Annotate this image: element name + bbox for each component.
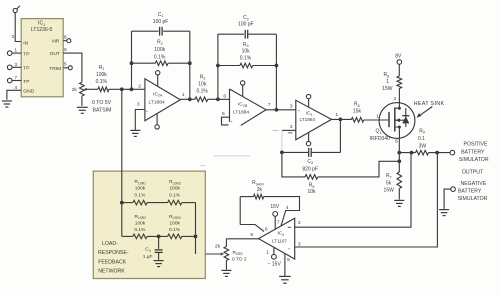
svg-text:3W: 3W (419, 144, 427, 150)
node source-rail (397, 151, 401, 155)
power pin circle top IC2B (241, 81, 245, 97)
svg-text:15W: 15W (384, 187, 395, 193)
node drain-diode (398, 107, 401, 110)
label load-response-feedback network (98, 241, 129, 275)
power pin circle bottom IC3 (306, 133, 310, 146)
svg-text:BATTERY: BATTERY (461, 149, 485, 155)
svg-text:820 pF: 820 pF (302, 166, 318, 172)
svg-text:SIMULATOR: SIMULATOR (459, 157, 489, 163)
svg-text:2: 2 (12, 34, 15, 40)
wire load to wiper (195, 236, 197, 254)
capacitor C2 100 pF (238, 15, 254, 38)
svg-text:3: 3 (290, 104, 293, 110)
pin 5 stub IC2B (222, 111, 234, 125)
wire load network main vertical (121, 89, 123, 202)
svg-text:IN: IN (23, 40, 28, 46)
resistor R7 5k 15W (384, 161, 402, 199)
resistor R5 10k (282, 152, 318, 195)
svg-text:− 15V: − 15V (268, 262, 282, 268)
wire C2 loop left rail (217, 34, 219, 99)
svg-text:BATTERY: BATTERY (458, 188, 482, 194)
pin 3 TP (7, 62, 29, 72)
svg-text:0.1%: 0.1% (154, 54, 166, 60)
in-amp IC4 LT1167 (259, 218, 295, 259)
svg-text:7: 7 (277, 219, 280, 225)
resistor R2 100k 0.1% (132, 40, 190, 66)
svg-text:5: 5 (287, 257, 290, 263)
svg-text:OUT: OUT (50, 51, 60, 57)
pin 1 TP (7, 48, 29, 58)
wire IC3 output (332, 112, 352, 119)
svg-text:SIMULATOR: SIMULATOR (458, 196, 488, 202)
svg-text:8V: 8V (395, 53, 402, 59)
pin 7 15V supply (270, 204, 280, 229)
node C4 tap (157, 235, 161, 239)
pin 6 lead (240, 225, 268, 233)
pin 2 label IC2A (138, 84, 141, 90)
svg-text:1: 1 (14, 48, 17, 54)
wire IC2A output (180, 92, 195, 100)
pin 8 wire to pot (226, 232, 258, 239)
svg-text:FEEDBACK: FEEDBACK (98, 259, 127, 265)
wire pot wiper to R1 (87, 88, 98, 90)
svg-text:RESPONSE-: RESPONSE- (98, 250, 129, 256)
pin 6 OUT wire (50, 47, 82, 82)
node load-network tap (120, 87, 124, 91)
Q1 drain lead up (394, 90, 400, 108)
svg-text:0.1%: 0.1% (134, 193, 146, 199)
Q1 body diode (402, 108, 409, 127)
power pin circle top IC2A (156, 71, 160, 87)
pin 5 TRIM (49, 62, 72, 72)
resistor R6 15k (351, 102, 364, 123)
pin 5 lead to ground (285, 254, 290, 277)
wire sense+ to IC4 pin 2 (295, 153, 411, 228)
Q1 gate bar (388, 112, 390, 127)
wire C3 up to IC3 output (339, 119, 341, 152)
resistor RLSR1 100k 0.1% (122, 179, 168, 205)
svg-text:0 TO 5V: 0 TO 5V (92, 100, 112, 106)
resistor RLSR2 100k 0.1% (122, 214, 168, 239)
Q1 source stub (395, 127, 400, 138)
ground (C4) (154, 261, 164, 267)
capacitor C3 820 pF (282, 148, 341, 173)
node sense left (410, 151, 414, 155)
node load rail right (194, 235, 198, 239)
svg-text:1: 1 (182, 92, 185, 98)
wire sense- to IC4 pin 3 (295, 153, 438, 247)
svg-text:100 pF: 100 pF (238, 22, 254, 28)
node source-feedback (397, 159, 401, 163)
svg-text:BATSIM: BATSIM (93, 107, 112, 113)
node R4 left (216, 64, 220, 68)
svg-text:3: 3 (137, 102, 140, 108)
transistor Q1 IRFD040 body circle (379, 103, 415, 139)
svg-text:10k: 10k (307, 189, 316, 195)
wire C1 loop right rail (189, 31, 191, 99)
wire RGAIN right to pin 4 (264, 197, 300, 226)
svg-text:NEGATIVE: NEGATIVE (460, 181, 486, 187)
pin 2 wire IC3 (282, 124, 296, 133)
wire load right drop (195, 203, 197, 237)
svg-text:1: 1 (266, 249, 269, 255)
svg-text:100k: 100k (169, 220, 180, 226)
svg-text:POSITIVE: POSITIVE (464, 141, 488, 147)
svg-text:10k: 10k (198, 82, 207, 88)
svg-text:TRIM: TRIM (49, 66, 61, 72)
negative battery simulator terminal (451, 187, 456, 192)
resistor RGAIN 2k (240, 180, 264, 199)
potentiometer RCBS 0 TO 2k (215, 239, 247, 263)
pin 8 NR (52, 35, 71, 45)
wire R1 to IC2A pin 2 (109, 88, 145, 90)
svg-text:100 pF: 100 pF (153, 19, 169, 25)
svg-text:HEAT SINK: HEAT SINK (414, 101, 445, 107)
wire C2 loop top rail (218, 33, 277, 35)
svg-text:0.1%: 0.1% (134, 227, 146, 233)
wire IC2B output to IC3 pin 3 (266, 102, 296, 110)
pin 1 -15V supply (266, 247, 281, 267)
faint wire remnant 2 (200, 164, 206, 166)
positive battery simulator terminal (450, 150, 455, 155)
svg-text:100k: 100k (154, 47, 165, 53)
wire load left drop (121, 203, 123, 237)
svg-text:6: 6 (64, 47, 67, 53)
ground (IC2A pin3) (130, 130, 140, 136)
faint stub left of IC3 pin2 (273, 129, 279, 131)
ground (pot) (77, 107, 88, 113)
svg-text:100k: 100k (169, 186, 180, 192)
svg-text:0 TO 2: 0 TO 2 (232, 257, 247, 263)
Q1 body arrow stub (395, 118, 406, 122)
power pin circle bottom IC2A (155, 114, 159, 129)
svg-text:LT1167: LT1167 (272, 239, 287, 244)
label S source (395, 139, 399, 145)
pin 4 GND wire (7, 85, 35, 100)
label IRFD040 (370, 136, 390, 142)
label 0 TO 5V BATSIM (92, 100, 112, 113)
load-response-feedback network box (93, 171, 205, 278)
svg-text:2: 2 (394, 96, 397, 102)
svg-text:1: 1 (335, 112, 338, 118)
svg-text:5: 5 (64, 62, 67, 68)
wire 8V to R8 (398, 64, 400, 76)
svg-text:TP: TP (23, 51, 29, 57)
wire R6 to gate pin 1 (364, 113, 389, 120)
node C1/R2 rail tap (130, 87, 134, 91)
input terminal (top left) (13, 6, 20, 13)
svg-text:7: 7 (14, 75, 17, 81)
svg-text:6: 6 (223, 93, 226, 99)
node IC2A output feedback (188, 97, 192, 101)
svg-text:2: 2 (138, 84, 141, 90)
svg-text:NETWORK: NETWORK (98, 269, 125, 275)
svg-text:0.1: 0.1 (418, 136, 425, 142)
pin 3 label IC3 (290, 104, 301, 113)
pin 2 label IC4 (288, 220, 301, 228)
node R2 left (130, 61, 134, 65)
pin 4 label (286, 205, 289, 211)
node C2/R4 rail tap (216, 97, 220, 101)
ground (IC4 pin5) (279, 276, 291, 283)
svg-text:5: 5 (222, 111, 225, 117)
svg-text:0.1%: 0.1% (169, 193, 181, 199)
svg-text:100k: 100k (135, 186, 146, 192)
node load rail top (120, 201, 124, 205)
wire IC3 pin2 down to feedback node (281, 130, 283, 152)
Q1 drain stub (395, 107, 400, 109)
svg-text:4: 4 (14, 85, 17, 91)
wire C1 loop left rail (131, 31, 133, 89)
svg-text:1: 1 (386, 79, 389, 85)
node C3/R5 feedback (280, 151, 284, 155)
label Q1 (376, 129, 382, 135)
resistor R8 1 15W (382, 72, 401, 92)
op-amp IC2B LT1884 (230, 89, 267, 131)
svg-text:100k: 100k (135, 220, 146, 226)
Q1 channel bar (394, 108, 396, 132)
node IC2B output feedback (275, 108, 279, 112)
label negative output (458, 181, 488, 202)
resistor R9 0.1 3W (416, 128, 429, 155)
svg-text:LT1884: LT1884 (300, 117, 316, 122)
wire pot to ground (81, 96, 83, 106)
ground (IC1 GND) (2, 101, 12, 107)
wire output rail (399, 152, 450, 154)
supply terminal 8V (395, 53, 402, 64)
svg-text:15V: 15V (270, 204, 280, 210)
IC IC1 LT1236-5 body (21, 19, 63, 97)
wire C1 loop top rail (132, 30, 190, 32)
pin 2 IN label (12, 34, 29, 46)
svg-text:LOAD-: LOAD- (102, 241, 118, 247)
wire input to IN pin (15, 13, 21, 42)
resistor RLSR4 100k 0.1% (168, 214, 196, 239)
capacitor C1 100 pF (153, 12, 169, 36)
svg-text:2k: 2k (215, 244, 221, 250)
svg-text:15W: 15W (382, 86, 393, 92)
wire R3 to IC2B pin 6 (208, 93, 230, 99)
svg-text:15k: 15k (353, 109, 362, 115)
svg-text:LT1884: LT1884 (233, 109, 250, 115)
wire R5 to MOSFET source node (318, 161, 400, 177)
svg-text:5k: 5k (386, 180, 392, 186)
svg-text:TP: TP (23, 66, 29, 72)
ground (negative output) (439, 210, 449, 216)
wiper wire from load network (196, 253, 225, 256)
svg-text:3: 3 (14, 62, 17, 68)
op-amp IC3 LT1884 (296, 100, 332, 140)
svg-text:6: 6 (265, 226, 268, 232)
svg-text:1 μF: 1 μF (143, 254, 153, 260)
resistor RLSR3 100k 0.1% (168, 179, 196, 205)
svg-text:LT1884: LT1884 (148, 100, 165, 106)
wire source down (398, 138, 400, 161)
pin 3 wire IC2A to ground (135, 102, 148, 131)
power pin circle top IC3 (306, 94, 310, 107)
svg-text:NR: NR (52, 39, 60, 45)
label positive output (459, 141, 489, 163)
ground (RCBS) (221, 270, 231, 276)
svg-text:2k: 2k (257, 187, 263, 193)
svg-text:2: 2 (298, 220, 301, 226)
label output (462, 170, 484, 176)
svg-text:LT1236-5: LT1236-5 (31, 27, 53, 33)
svg-text:3: 3 (298, 241, 301, 247)
node sense right (435, 151, 439, 155)
svg-text:8: 8 (250, 232, 253, 238)
node R4 right (275, 64, 279, 68)
svg-text:OUTPUT: OUTPUT (462, 170, 484, 176)
heat-sink label and arrow (414, 101, 445, 118)
pin 3 label IC4 (288, 241, 301, 251)
potentiometer 2k (BATSIM adjust) (72, 82, 87, 96)
svg-text:10k: 10k (242, 49, 251, 55)
node R2 right (188, 61, 192, 65)
resistor R1 100k 0.1% (96, 65, 109, 92)
capacitor C4 1uF (143, 236, 163, 259)
svg-text:GND: GND (23, 89, 34, 95)
svg-text:TP: TP (23, 79, 29, 85)
wire R8 to drain (398, 89, 400, 91)
svg-text:8: 8 (64, 35, 67, 41)
wire RGAIN left to pin 6 (239, 197, 241, 225)
svg-text:0.1%: 0.1% (169, 227, 181, 233)
svg-text:IRFD040: IRFD040 (370, 136, 390, 142)
svg-text:100k: 100k (96, 72, 107, 78)
svg-text:0.1%: 0.1% (96, 79, 108, 85)
svg-text:0.1%: 0.1% (196, 89, 208, 95)
ground (R7) (394, 200, 404, 206)
wire negative terminal to ground (444, 189, 451, 209)
svg-text:2k: 2k (72, 87, 78, 93)
pin 7 TP (7, 75, 29, 85)
node source-diode (398, 126, 401, 129)
faint wire remnant 1 (214, 155, 251, 157)
op-amp IC2A LT1884 (145, 79, 180, 121)
wire RCBS to ground (225, 261, 227, 270)
resistor R3 10k 0.1% (195, 74, 208, 101)
svg-text:2: 2 (290, 124, 293, 130)
svg-text:0.1%: 0.1% (240, 55, 252, 61)
wire C2 loop right rail (275, 34, 277, 110)
svg-text:7: 7 (268, 102, 271, 108)
node C3 tap on output (339, 118, 343, 122)
resistor R4 10k 0.1% (218, 42, 277, 68)
